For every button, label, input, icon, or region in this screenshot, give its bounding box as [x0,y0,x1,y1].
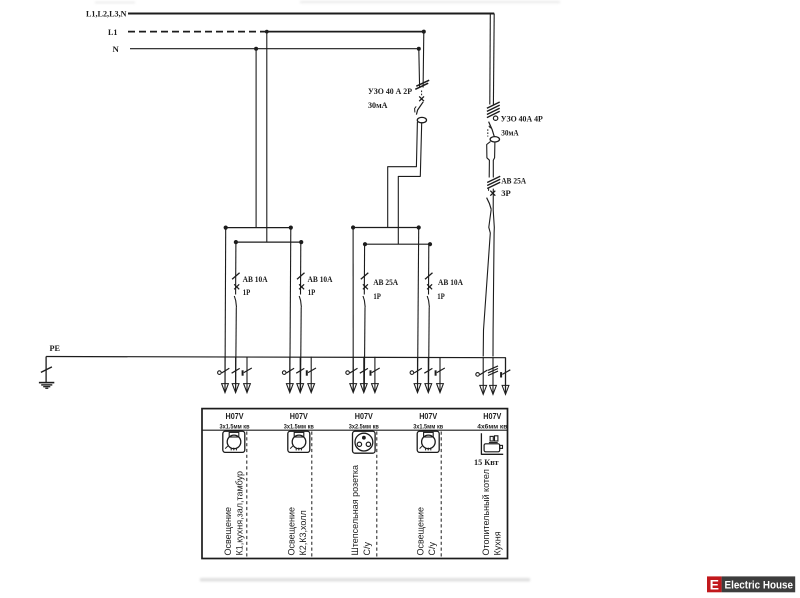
RCD U2 switch blade [489,122,495,137]
svg-text:30мА: 30мА [368,100,388,110]
svg-text:3х1.5мм кв: 3х1.5мм кв [284,424,314,431]
Electric House logo red box [707,576,722,592]
svg-text:H07V: H07V [483,412,502,421]
wire QF5 output pair to kitchen boiler circuit [488,189,490,191]
RCD U1 2-pole slash marks [415,83,428,89]
svg-text:АВ 10А: АВ 10А [308,274,334,284]
MCB QF4 АВ 10А 1Р [428,244,430,294]
outgoing circuit 5 connector and arrows (3-phase) [476,373,480,377]
svg-text:Освещение: Освещение [415,507,425,556]
socket outlet icon column 3 [353,431,376,453]
svg-text:H07V: H07V [355,412,374,421]
RCD U1 contact hook [415,106,417,112]
svg-text:УЗО 40 А 2Р: УЗО 40 А 2Р [368,86,413,96]
svg-text:АВ 25А: АВ 25А [501,175,527,185]
RCD U2 4-pole hatch marks [487,102,500,108]
luminaire icon column 2 [288,431,310,452]
svg-text:Освещение: Освещение [223,507,233,556]
MCB QF2 АВ 10А 1Р [300,242,302,294]
wire L1 solid segment [267,31,424,33]
load table frame [202,409,508,559]
wire L1,L2,L3,N feeder [128,13,494,15]
svg-text:4х6мм кв: 4х6мм кв [477,424,507,431]
wire L1 drop to left group bus [266,32,268,243]
RCD U1 dashed stub [421,91,423,97]
Electric House logo text box [722,576,796,592]
PE drop slash [41,367,52,373]
wire N drop circuit 4 [418,228,419,392]
svg-text:30мА: 30мА [501,127,519,137]
PE ground drop wire [45,357,47,383]
svg-text:С/у: С/у [362,542,372,556]
MCB QF5 x mark [490,191,495,196]
wire N drop to RCD U1 [418,49,421,88]
boiler icon column 5 [481,433,503,454]
PE bus [46,357,505,392]
RCD U2 input circle [493,116,497,120]
svg-text:L1,L2,L3,N: L1,L2,L3,N [86,9,127,19]
svg-text:L1: L1 [108,27,118,37]
svg-text:PE: PE [50,343,61,353]
svg-text:3х2.5мм кв: 3х2.5мм кв [349,424,379,431]
wire N drop circuit 3 [352,228,354,392]
svg-text:К2,К3,холл: К2,К3,холл [298,510,308,555]
wire RCD U1 output left (stair-step to right group bus 1) [388,122,418,228]
left group bus 1 (N) [226,227,291,229]
RCD U1 differential transformer ellipse [417,117,426,122]
wire RCD U2 output (pair with bulge) [487,142,491,178]
svg-text:15 Квт: 15 Квт [474,457,499,467]
wire L1 drop to RCD U1 [422,32,425,88]
column 2 separator dashed [311,432,313,559]
svg-text:3Р: 3Р [501,188,511,198]
RCD U2 dashed link [487,129,489,136]
ground electrode symbol [39,382,54,384]
svg-text:H07V: H07V [419,412,438,421]
svg-text:1Р: 1Р [437,291,445,301]
wire N drop circuit 2 [290,228,291,392]
node junction L1 to left group drop [265,30,269,34]
outgoing circuit 2 connector and arrows [282,371,286,375]
MCB QF3 АВ 25А 1Р [363,244,365,294]
svg-text:1Р: 1Р [373,291,381,301]
outgoing circuit 4 connector and arrows [410,371,414,375]
column 1 separator dashed [246,432,248,559]
svg-text:H07V: H07V [226,412,245,421]
wire N drop circuit 1 [224,228,227,392]
RCD U2 contact tick [489,126,491,128]
svg-text:Electric House: Electric House [725,580,794,592]
outgoing circuit 3 connector and arrows [346,371,350,375]
svg-text:1Р: 1Р [308,287,316,297]
svg-text:3х1.5мм кв: 3х1.5мм кв [413,424,443,431]
node L1 corner to RCD U1 [422,30,426,34]
svg-text:1Р: 1Р [243,287,251,297]
svg-text:УЗО 40А 4Р: УЗО 40А 4Р [501,114,544,124]
svg-text:АВ 10А: АВ 10А [438,277,464,287]
svg-text:Освещение: Освещение [287,507,297,556]
RCD U1 switch blade [416,102,423,115]
svg-text:Отопительный котел: Отопительный котел [481,469,491,555]
svg-text:N: N [113,44,120,54]
node N corner to RCD U1 [417,47,421,51]
MCB QF5 3-pole hatch marks [487,176,500,182]
MCB QF1 АВ 10А 1Р [235,242,237,294]
right group bus 2 (L) [365,243,430,245]
wire L1 dashed segment [128,31,267,33]
outgoing circuit 1 connector and arrows [218,371,222,375]
RCD U1 x mark [419,96,424,101]
svg-text:Штепсельная розетка: Штепсельная розетка [350,465,360,556]
column 3 separator dashed [376,432,378,559]
svg-text:К1,кухня,зал,тамбур: К1,кухня,зал,тамбур [235,471,245,556]
right group bus 1 (N) [353,227,419,229]
svg-text:3х1.5мм кв: 3х1.5мм кв [220,424,250,431]
node junction N to left group drop [254,47,258,51]
column 4 separator dashed [440,432,442,559]
svg-text:H07V: H07V [290,412,309,421]
svg-text:АВ 10А: АВ 10А [243,274,269,284]
RCD U2 differential transformer ellipse [490,137,499,142]
luminaire icon column 4 [417,431,439,452]
svg-text:С/у: С/у [427,542,437,556]
wire RCD U1 output right (stair-step to right group bus 2) [398,123,421,244]
luminaire icon column 1 [223,431,245,452]
svg-text:АВ 25А: АВ 25А [373,277,399,287]
left group bus 2 (L1) [236,241,301,243]
wire N drop to left group bus [255,49,257,228]
load table header separator [202,429,508,431]
svg-text:E: E [710,577,719,593]
wire feeder corner to RCD U2 (pair) [492,14,495,105]
svg-text:Кухня: Кухня [493,531,503,555]
wire N [130,48,419,50]
MCB QF5 switch blade [487,198,492,210]
